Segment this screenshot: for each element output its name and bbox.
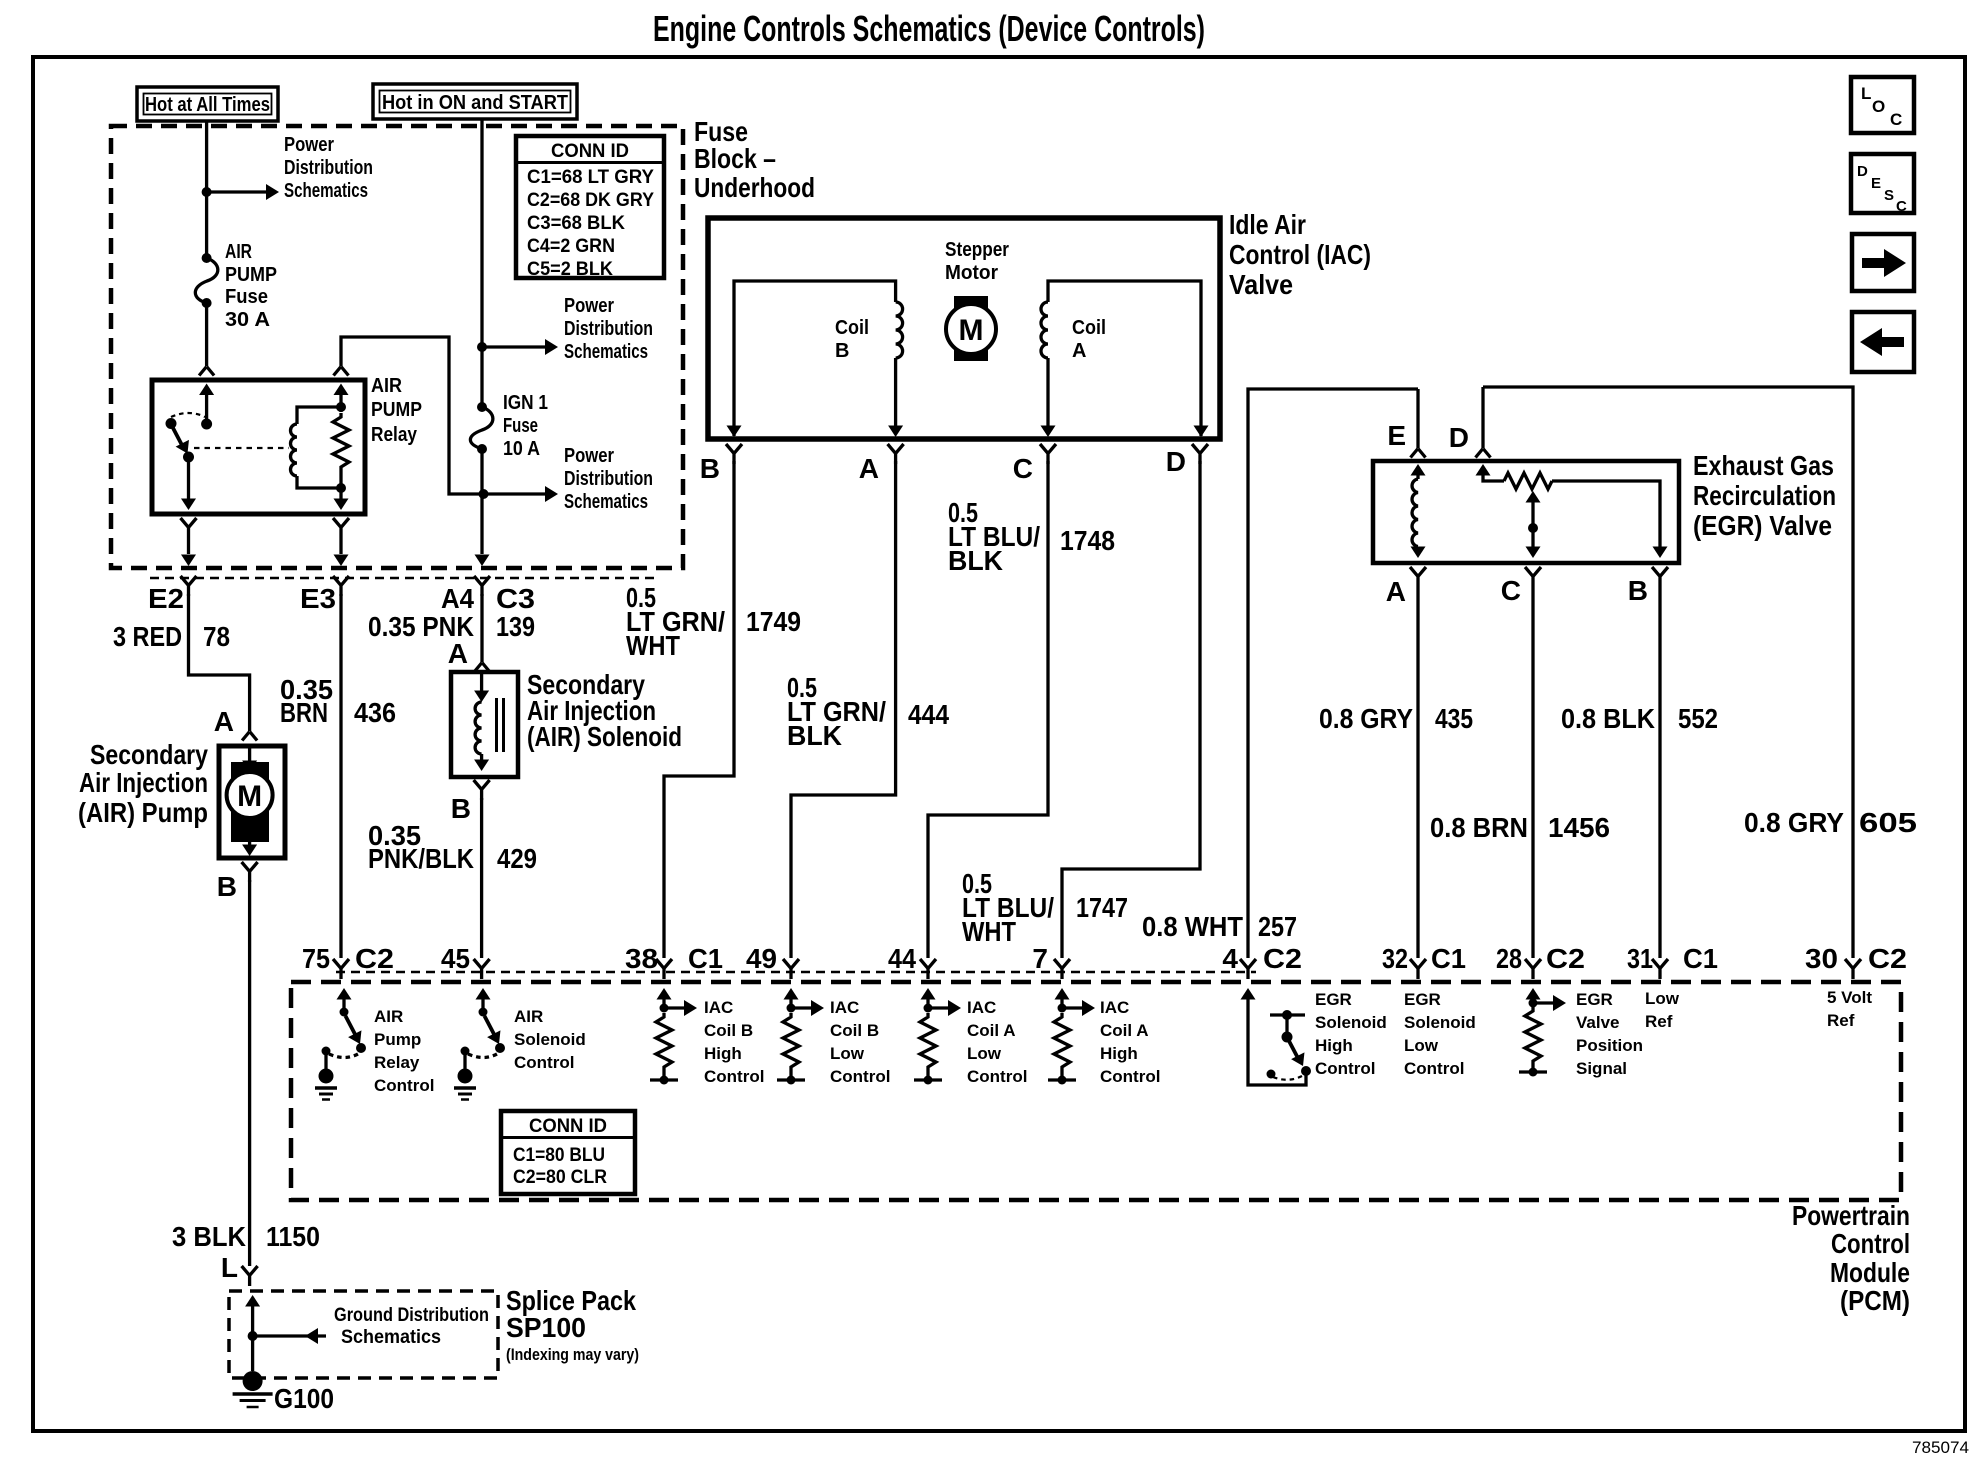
connector pin E at EGR bbox=[1416, 389, 1419, 448]
svg-text:E: E bbox=[1387, 420, 1406, 451]
connector pin D at EGR bbox=[1481, 387, 1484, 448]
svg-text:Fuse: Fuse bbox=[225, 286, 268, 308]
connector pin 75 C2 bbox=[333, 959, 349, 979]
svg-text:605: 605 bbox=[1859, 807, 1917, 838]
label: Stepper Motor bbox=[945, 239, 1009, 284]
svg-text:Position: Position bbox=[1576, 1036, 1643, 1055]
svg-text:C1=68 LT GRY: C1=68 LT GRY bbox=[527, 167, 654, 188]
label: Secondary Air Injection (AIR) Pump bbox=[78, 739, 208, 828]
svg-text:139: 139 bbox=[496, 611, 535, 642]
relay coil output wire bbox=[339, 488, 342, 501]
connector face (thin dashed) at fuse block bbox=[150, 577, 660, 580]
svg-text:Ref: Ref bbox=[1827, 1011, 1855, 1030]
svg-text:AIR: AIR bbox=[514, 1007, 543, 1026]
wire: IGN1 feed down from Hot in ON and START bbox=[480, 118, 483, 407]
svg-text:AIR: AIR bbox=[374, 1007, 403, 1026]
label: Fuse Block - Underhood bbox=[694, 116, 815, 203]
wire arrow to Ground Distribution Schematics bbox=[253, 1334, 326, 1337]
svg-text:0.8 GRY: 0.8 GRY bbox=[1744, 807, 1844, 838]
svg-text:3 BLK: 3 BLK bbox=[172, 1221, 246, 1252]
svg-text:45: 45 bbox=[441, 943, 470, 974]
svg-text:Distribution: Distribution bbox=[564, 318, 653, 340]
connector pin 28 C2 bbox=[1525, 959, 1541, 979]
svg-text:0.8 GRY: 0.8 GRY bbox=[1319, 703, 1413, 734]
svg-text:75: 75 bbox=[302, 943, 330, 974]
wire: circuit 605, 0.8 GRY (EGR D to PCM 30) bbox=[1483, 387, 1853, 958]
LOC button bbox=[1851, 77, 1914, 133]
svg-text:E2: E2 bbox=[148, 583, 184, 614]
relay coil resistor bbox=[339, 407, 342, 412]
svg-text:C: C bbox=[1890, 110, 1902, 129]
svg-text:High: High bbox=[1100, 1044, 1138, 1063]
connector pin 38 C1 bbox=[656, 959, 672, 979]
svg-text:Exhaust Gas: Exhaust Gas bbox=[1693, 450, 1834, 481]
fuse block dashed box bbox=[111, 126, 683, 568]
connector pin 31 C1 bbox=[1652, 959, 1668, 979]
svg-text:(Indexing may vary): (Indexing may vary) bbox=[506, 1345, 639, 1364]
svg-text:436: 436 bbox=[354, 697, 396, 728]
wire: relay coil feed jog bbox=[341, 337, 484, 494]
svg-text:Relay: Relay bbox=[374, 1053, 420, 1072]
svg-text:1749: 1749 bbox=[746, 606, 801, 637]
svg-text:IAC: IAC bbox=[704, 998, 733, 1017]
svg-text:785074: 785074 bbox=[1912, 1438, 1969, 1457]
svg-text:A: A bbox=[448, 638, 468, 669]
svg-text:1456: 1456 bbox=[1548, 812, 1610, 843]
svg-text:3 RED: 3 RED bbox=[113, 621, 182, 652]
svg-text:C1=80 BLU: C1=80 BLU bbox=[513, 1145, 605, 1166]
svg-text:4: 4 bbox=[1222, 943, 1238, 974]
svg-text:Idle Air: Idle Air bbox=[1229, 209, 1306, 240]
svg-text:552: 552 bbox=[1678, 703, 1718, 734]
label: Splice Pack SP100 bbox=[506, 1285, 639, 1364]
svg-text:A: A bbox=[1386, 576, 1406, 607]
PCM resistor: IAC Coil A High Control bbox=[1048, 988, 1095, 1085]
svg-text:Low: Low bbox=[1404, 1036, 1439, 1055]
svg-text:C: C bbox=[1013, 453, 1033, 484]
svg-text:EGR: EGR bbox=[1576, 990, 1613, 1009]
relay switch travel arc bbox=[171, 413, 205, 417]
svg-text:BLK: BLK bbox=[787, 720, 842, 751]
svg-text:Recirculation: Recirculation bbox=[1693, 480, 1836, 511]
wire: circuit 435, 0.8 GRY (EGR A to PCM 32) bbox=[1416, 587, 1419, 958]
splice pack SP100 dashed box bbox=[229, 1291, 498, 1378]
connector pin 45 bbox=[474, 959, 490, 979]
svg-text:L: L bbox=[221, 1252, 238, 1283]
svg-text:C: C bbox=[1501, 575, 1521, 606]
label: Power Distribution Schematics (top) bbox=[284, 134, 373, 202]
fuse: AIR PUMP Fuse 30 A bbox=[195, 241, 277, 331]
wire: circuit 1748, 0.5 LT BLU/BLK (IAC C to PCM 44) bbox=[928, 461, 1048, 958]
svg-text:D: D bbox=[1449, 422, 1469, 453]
svg-text:Pump: Pump bbox=[374, 1030, 421, 1049]
wire: IGN1 output to fuse block boundary bbox=[480, 494, 483, 554]
svg-text:C1: C1 bbox=[688, 943, 723, 974]
svg-text:Coil A: Coil A bbox=[1100, 1021, 1148, 1040]
svg-text:30: 30 bbox=[1805, 943, 1838, 974]
svg-text:IAC: IAC bbox=[967, 998, 996, 1017]
DESC button bbox=[1851, 154, 1914, 215]
svg-text:Block –: Block – bbox=[694, 143, 776, 174]
svg-text:High: High bbox=[1315, 1036, 1353, 1055]
svg-text:32: 32 bbox=[1382, 943, 1408, 974]
relay switch output to boundary bbox=[181, 518, 197, 538]
IAC coil B bbox=[727, 281, 904, 437]
svg-text:49: 49 bbox=[746, 943, 777, 974]
svg-text:Schematics: Schematics bbox=[284, 180, 368, 202]
connector E3 bbox=[333, 576, 349, 596]
relay coil (inductor) bbox=[297, 407, 341, 424]
svg-text:A: A bbox=[859, 453, 879, 484]
connector pin B at AIR solenoid bbox=[474, 780, 490, 800]
connector pin 32 C1 bbox=[1410, 959, 1426, 979]
PCM resistor: IAC Coil B Low Control bbox=[777, 988, 824, 1085]
label: Hot at All Times bbox=[137, 87, 278, 121]
connector pin 7 bbox=[1054, 959, 1070, 979]
svg-text:(AIR) Solenoid: (AIR) Solenoid bbox=[527, 721, 682, 752]
svg-text:C2: C2 bbox=[355, 943, 394, 974]
svg-text:Solenoid: Solenoid bbox=[1315, 1013, 1387, 1032]
svg-text:A: A bbox=[1072, 340, 1086, 362]
svg-text:AIR: AIR bbox=[371, 375, 402, 397]
svg-text:BRN: BRN bbox=[280, 697, 328, 728]
svg-text:Ground Distribution: Ground Distribution bbox=[334, 1305, 489, 1326]
svg-text:High: High bbox=[704, 1044, 742, 1063]
svg-text:D: D bbox=[1857, 163, 1868, 180]
connector pin A at EGR bbox=[1410, 567, 1426, 587]
svg-text:Signal: Signal bbox=[1576, 1059, 1627, 1078]
connector pin B at IAC bbox=[726, 444, 742, 464]
svg-text:IGN 1: IGN 1 bbox=[503, 392, 548, 414]
relay coil pin bbox=[334, 384, 349, 396]
svg-text:444: 444 bbox=[908, 699, 949, 730]
connector pin A at AIR solenoid bbox=[475, 663, 490, 672]
svg-text:Distribution: Distribution bbox=[284, 157, 373, 179]
svg-text:L: L bbox=[1861, 84, 1871, 103]
svg-text:Control: Control bbox=[830, 1067, 890, 1086]
fuse: IGN 1 Fuse 10 A bbox=[470, 392, 548, 460]
svg-text:Coil: Coil bbox=[1072, 317, 1106, 339]
svg-text:0.8 WHT: 0.8 WHT bbox=[1142, 911, 1243, 942]
PCM driver: AIR Pump Relay Control bbox=[315, 988, 367, 1100]
svg-text:M: M bbox=[237, 780, 262, 813]
connector A4 / C3 bbox=[474, 576, 490, 596]
svg-text:B: B bbox=[1628, 575, 1648, 606]
node: junction to power distribution bbox=[477, 342, 487, 352]
wire: IGN1 fuse output bbox=[480, 449, 483, 494]
svg-text:B: B bbox=[217, 871, 237, 902]
svg-text:Power: Power bbox=[564, 445, 614, 467]
svg-text:Low: Low bbox=[830, 1044, 865, 1063]
svg-text:C: C bbox=[1896, 198, 1907, 215]
svg-text:Schematics: Schematics bbox=[564, 341, 648, 363]
relay switch output wire bbox=[187, 457, 190, 501]
EGR position sensor resistor (D to B) bbox=[1476, 464, 1668, 558]
svg-text:E: E bbox=[1871, 175, 1881, 192]
svg-text:CONN ID: CONN ID bbox=[529, 1116, 607, 1137]
label: Idle Air Control (IAC) Valve bbox=[1229, 209, 1371, 300]
svg-text:EGR: EGR bbox=[1404, 990, 1441, 1009]
svg-text:Power: Power bbox=[284, 134, 334, 156]
PCM driver: AIR Solenoid Control bbox=[454, 988, 506, 1100]
svg-text:EGR: EGR bbox=[1315, 990, 1352, 1009]
svg-text:A4: A4 bbox=[441, 583, 474, 614]
svg-text:PNK/BLK: PNK/BLK bbox=[368, 843, 474, 874]
svg-text:BLK: BLK bbox=[948, 545, 1003, 576]
svg-text:(EGR) Valve: (EGR) Valve bbox=[1693, 510, 1832, 541]
svg-text:Relay: Relay bbox=[371, 424, 418, 446]
svg-text:10 A: 10 A bbox=[503, 438, 540, 460]
wire arrow to Power Distribution Schematics (middle) bbox=[482, 345, 545, 348]
PCM driver: EGR Solenoid High Control bbox=[1241, 988, 1312, 1085]
svg-text:5 Volt: 5 Volt bbox=[1827, 988, 1872, 1007]
svg-text:C2: C2 bbox=[1263, 943, 1302, 974]
svg-text:Solenoid: Solenoid bbox=[1404, 1013, 1476, 1032]
connector pin C at EGR bbox=[1525, 567, 1541, 587]
motor: stepper M bbox=[946, 296, 996, 361]
table: CONN ID (PCM) bbox=[501, 1111, 635, 1194]
table: CONN ID (fuse block) bbox=[516, 136, 664, 280]
wire: circuit 1747, 0.5 LT BLU/WHT (IAC D to PCM 7) bbox=[1062, 461, 1200, 958]
svg-text:SP100: SP100 bbox=[506, 1312, 586, 1343]
relay coil output to boundary bbox=[333, 518, 349, 538]
node: junction below IGN1 fuse bbox=[479, 489, 489, 499]
label: Hot in ON and START bbox=[373, 84, 577, 119]
svg-text:S: S bbox=[1884, 187, 1894, 204]
svg-text:Schematics: Schematics bbox=[341, 1327, 441, 1348]
svg-text:Coil: Coil bbox=[835, 317, 869, 339]
EGR solenoid coil (E to A) bbox=[1411, 464, 1426, 558]
label: Low Ref bbox=[1645, 989, 1680, 1031]
svg-text:Valve: Valve bbox=[1576, 1013, 1620, 1032]
relay switch common pin bbox=[199, 384, 214, 396]
relay switch arm bbox=[173, 428, 184, 449]
svg-text:WHT: WHT bbox=[962, 916, 1016, 947]
svg-text:30 A: 30 A bbox=[225, 309, 270, 331]
wire arrow to Power Distribution Schematics (lower) bbox=[484, 492, 546, 495]
svg-text:Control: Control bbox=[1100, 1067, 1160, 1086]
connector face (thin dashed) at PCM bbox=[336, 971, 1256, 974]
svg-text:Low: Low bbox=[1645, 989, 1680, 1008]
node: junction on battery feed bbox=[202, 187, 212, 197]
svg-text:Solenoid: Solenoid bbox=[514, 1030, 586, 1049]
svg-text:C1: C1 bbox=[1431, 943, 1466, 974]
svg-text:0.8 BLK: 0.8 BLK bbox=[1561, 703, 1655, 734]
svg-text:C2: C2 bbox=[1546, 943, 1585, 974]
wire: arrow to Power Distribution Schematics bbox=[207, 190, 266, 193]
svg-text:C2=80 CLR: C2=80 CLR bbox=[513, 1167, 607, 1188]
wire: fuse to relay bbox=[205, 303, 208, 366]
relay K: AIR PUMP Relay box bbox=[152, 380, 365, 514]
EGR position sensor wiper (C) bbox=[1526, 491, 1541, 558]
svg-text:PUMP: PUMP bbox=[371, 399, 422, 421]
svg-text:Ref: Ref bbox=[1645, 1012, 1673, 1031]
wire: circuit 1150, 3 BLK (pump B to ground splice) bbox=[248, 880, 251, 1266]
ground G100 bbox=[233, 1371, 334, 1414]
svg-text:C4=2 GRN: C4=2 GRN bbox=[527, 236, 615, 257]
svg-text:Control: Control bbox=[1315, 1059, 1375, 1078]
svg-text:Stepper: Stepper bbox=[945, 239, 1009, 261]
svg-text:C1: C1 bbox=[1683, 943, 1718, 974]
wire: circuit 257, 0.8 WHT (EGR E to PCM 4) bbox=[1248, 389, 1418, 958]
svg-text:C3: C3 bbox=[496, 583, 535, 614]
connector pin at relay coil input bbox=[334, 367, 349, 376]
svg-text:C5=2 BLK: C5=2 BLK bbox=[527, 259, 613, 280]
svg-text:M: M bbox=[959, 314, 984, 347]
svg-text:Control: Control bbox=[1831, 1228, 1910, 1259]
svg-text:B: B bbox=[451, 793, 471, 824]
connector pin 30 C2 bbox=[1845, 959, 1861, 979]
PCM resistor: IAC Coil B High Control bbox=[650, 988, 697, 1085]
connector pin 49 bbox=[783, 959, 799, 979]
node: splice junction bbox=[248, 1331, 258, 1341]
svg-text:Control (IAC): Control (IAC) bbox=[1229, 239, 1371, 270]
wire: circuit 436, 0.35 BRN (E3 to PCM 75) bbox=[339, 594, 342, 958]
svg-text:Underhood: Underhood bbox=[694, 172, 815, 203]
svg-text:AIR: AIR bbox=[225, 241, 252, 263]
label: Exhaust Gas Recirculation (EGR) Valve bbox=[1693, 450, 1836, 541]
svg-text:1747: 1747 bbox=[1076, 892, 1128, 923]
svg-text:Module: Module bbox=[1830, 1257, 1910, 1288]
svg-text:IAC: IAC bbox=[830, 998, 859, 1017]
svg-text:Control: Control bbox=[704, 1067, 764, 1086]
svg-text:WHT: WHT bbox=[626, 630, 680, 661]
label: 5 Volt Ref bbox=[1827, 988, 1872, 1030]
PCM resistor: EGR Valve Position Signal bbox=[1519, 988, 1566, 1077]
svg-text:Control: Control bbox=[967, 1067, 1027, 1086]
IAC coil A bbox=[1041, 281, 1209, 437]
wire: circuit 429, 0.35 PNK/BLK (solenoid B to PCM 45) bbox=[480, 798, 483, 958]
svg-text:CONN ID: CONN ID bbox=[551, 141, 629, 162]
wire: circuit 1749, 0.5 LT GRN/WHT (IAC B to PCM 38) bbox=[664, 461, 734, 958]
label: AIR PUMP Relay bbox=[371, 375, 422, 446]
svg-text:Power: Power bbox=[564, 295, 614, 317]
svg-text:Air Injection: Air Injection bbox=[79, 767, 208, 798]
connector pin B at AIR pump bbox=[242, 862, 258, 882]
connector pin D at IAC bbox=[1192, 444, 1208, 464]
IAC valve box bbox=[708, 218, 1220, 439]
relay mechanical link (dashed) bbox=[194, 447, 289, 449]
svg-text:1150: 1150 bbox=[266, 1221, 320, 1252]
PCM dashed box bbox=[291, 982, 1901, 1200]
svg-text:Powertrain: Powertrain bbox=[1792, 1200, 1910, 1231]
svg-text:C2=68 DK GRY: C2=68 DK GRY bbox=[527, 190, 654, 211]
svg-text:Hot in ON and START: Hot in ON and START bbox=[382, 92, 568, 114]
wire: circuit 552, 0.8 BLK (EGR B to PCM 31) bbox=[1658, 587, 1661, 958]
svg-text:Engine Controls Schematics (De: Engine Controls Schematics (Device Contr… bbox=[653, 8, 1205, 49]
svg-text:Hot at All Times: Hot at All Times bbox=[145, 94, 270, 116]
svg-text:IAC: IAC bbox=[1100, 998, 1129, 1017]
svg-text:257: 257 bbox=[1258, 911, 1297, 942]
svg-text:Coil B: Coil B bbox=[830, 1021, 879, 1040]
svg-text:435: 435 bbox=[1435, 703, 1473, 734]
svg-text:Low: Low bbox=[967, 1044, 1002, 1063]
svg-text:0.8 BRN: 0.8 BRN bbox=[1430, 812, 1528, 843]
svg-text:D: D bbox=[1166, 446, 1186, 477]
wire: circuit 78, 3 RED (E2 to AIR pump) bbox=[189, 594, 250, 731]
connector pin A at AIR pump bbox=[242, 732, 257, 741]
svg-text:(PCM): (PCM) bbox=[1840, 1285, 1910, 1316]
label: Power Distribution Schematics (lower) bbox=[564, 445, 653, 513]
svg-text:Control: Control bbox=[374, 1076, 434, 1095]
svg-text:A: A bbox=[214, 706, 234, 737]
EGR valve box bbox=[1373, 461, 1679, 563]
label: Powertrain Control Module (PCM) bbox=[1792, 1200, 1910, 1316]
connector pin 44 bbox=[920, 959, 936, 979]
svg-text:1748: 1748 bbox=[1060, 525, 1115, 556]
next arrow button bbox=[1852, 234, 1914, 291]
relay switch fixed contact bbox=[166, 418, 177, 429]
motor: Secondary Air Injection (AIR) Pump bbox=[219, 746, 285, 858]
svg-text:C2: C2 bbox=[1868, 943, 1907, 974]
svg-text:38: 38 bbox=[625, 943, 658, 974]
svg-text:(AIR) Pump: (AIR) Pump bbox=[78, 797, 208, 828]
connector pin at relay switch input bbox=[199, 367, 214, 376]
svg-text:E3: E3 bbox=[300, 583, 336, 614]
svg-text:Control: Control bbox=[1404, 1059, 1464, 1078]
svg-text:78: 78 bbox=[203, 621, 230, 652]
svg-text:B: B bbox=[835, 340, 849, 362]
svg-text:28: 28 bbox=[1496, 943, 1522, 974]
svg-text:PUMP: PUMP bbox=[225, 264, 277, 286]
connector E2 bbox=[181, 576, 197, 596]
label: Secondary Air Injection (AIR) Solenoid bbox=[527, 669, 682, 752]
svg-text:Motor: Motor bbox=[945, 262, 998, 284]
svg-text:O: O bbox=[1872, 97, 1885, 116]
connector pin A at IAC bbox=[888, 444, 904, 464]
svg-text:31: 31 bbox=[1627, 943, 1653, 974]
svg-text:Schematics: Schematics bbox=[564, 491, 648, 513]
svg-text:Coil B: Coil B bbox=[704, 1021, 753, 1040]
svg-text:Control: Control bbox=[514, 1053, 574, 1072]
wire: battery feed from Hot at All Times bbox=[205, 120, 208, 258]
svg-text:44: 44 bbox=[888, 943, 916, 974]
wire into splice bbox=[245, 1295, 260, 1307]
label: EGR Solenoid Low Control bbox=[1404, 990, 1476, 1078]
svg-text:Distribution: Distribution bbox=[564, 468, 653, 490]
svg-text:429: 429 bbox=[497, 843, 537, 874]
svg-text:Secondary: Secondary bbox=[90, 739, 208, 770]
svg-text:Fuse: Fuse bbox=[503, 415, 538, 437]
solenoid: Secondary Air Injection (AIR) Solenoid bbox=[451, 672, 518, 777]
label: Power Distribution Schematics (middle) bbox=[564, 295, 653, 363]
PCM resistor: IAC Coil A Low Control bbox=[914, 988, 961, 1085]
connector pin B at EGR bbox=[1652, 567, 1668, 587]
svg-text:Valve: Valve bbox=[1229, 269, 1293, 300]
svg-text:Coil A: Coil A bbox=[967, 1021, 1015, 1040]
svg-text:B: B bbox=[700, 453, 720, 484]
svg-text:G100: G100 bbox=[274, 1383, 334, 1414]
wire: circuit 444, 0.5 LT GRN/BLK (IAC A to PCM 49) bbox=[791, 461, 896, 958]
svg-text:C3=68 BLK: C3=68 BLK bbox=[527, 213, 625, 234]
connector pin C at IAC bbox=[1040, 444, 1056, 464]
label: Ground Distribution Schematics bbox=[334, 1305, 489, 1348]
wire: circuit 139, 0.35 PNK (C3 to AIR solenoid) bbox=[480, 594, 483, 662]
back arrow button bbox=[1852, 312, 1914, 372]
svg-text:7: 7 bbox=[1032, 943, 1048, 974]
wire: circuit 1456, 0.8 BRN (EGR C to PCM 28) bbox=[1531, 587, 1534, 958]
connector pin 4 C2 bbox=[1240, 959, 1256, 979]
